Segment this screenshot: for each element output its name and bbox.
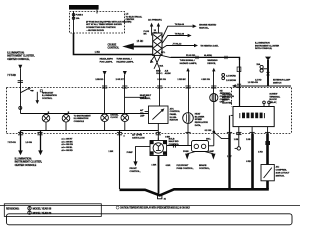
junction dot and diagonal to ground — [205, 130, 230, 146]
svg-text:HEAT: HEAT — [195, 113, 201, 116]
svg-text:HOT AT ALL TIMES WIRING SHOWN: HOT AT ALL TIMES WIRING SHOWN — [86, 23, 122, 26]
svg-text:6 BR: 6 BR — [166, 165, 171, 167]
node label atc left — [140, 109, 145, 118]
ATC control panel R20 — [145, 106, 168, 124]
wire regulator to relay — [167, 144, 192, 148]
svg-text:7 RT-GN: 7 RT-GN — [8, 142, 17, 144]
node label KE — [220, 90, 235, 103]
svg-text:PANEL: PANEL — [170, 113, 178, 116]
node label lamp L5 — [195, 113, 209, 127]
svg-text:SOR CUTOUT: SOR CUTOUT — [276, 172, 290, 174]
svg-text:1.5B: 1.5B — [246, 139, 251, 141]
AC compressor switch S9 — [261, 165, 274, 190]
svg-text:ILLUM-: ILLUM- — [170, 117, 177, 119]
wire tap 1 below lamp bus — [8, 131, 24, 156]
node label cruise control — [108, 44, 120, 50]
svg-text:FUSE CONTROL,: FUSE CONTROL, — [177, 168, 194, 170]
lamp L6 KE jetronic — [210, 94, 218, 132]
svg-text:DEVICE,: DEVICE, — [207, 63, 216, 65]
svg-text:REGULATOR: REGULATOR — [195, 121, 209, 124]
svg-text:LMP: LMP — [140, 116, 145, 118]
svg-text:1.5 BK/GN: 1.5 BK/GN — [226, 80, 237, 82]
connector pair circles — [222, 74, 225, 80]
svg-text:PUMP: PUMP — [127, 152, 134, 154]
svg-text:WARNING: WARNING — [207, 59, 217, 62]
svg-text:10A: 10A — [76, 17, 80, 20]
node label AT control — [132, 134, 145, 140]
svg-text:DATA,: DATA, — [195, 124, 201, 127]
node caution note — [116, 206, 190, 210]
svg-text:8 RD: 8 RD — [246, 161, 251, 163]
wire headlamps drop — [102, 71, 107, 114]
svg-text:DIGITAL: DIGITAL — [110, 113, 119, 116]
svg-text:CONTROL: CONTROL — [169, 144, 180, 146]
svg-text:MALF IND: MALF IND — [169, 140, 179, 143]
svg-text:COMPRES-: COMPRES- — [276, 169, 288, 171]
node label engine heater manual — [199, 23, 216, 29]
node labels wire colors — [226, 76, 237, 82]
node label repeater lights switch — [273, 79, 291, 85]
svg-text:TURN SIGNAL /: TURN SIGNAL / — [180, 59, 196, 62]
svg-text:60A: 60A — [159, 65, 163, 68]
svg-text:CENTER: CENTER — [126, 19, 135, 21]
svg-text:MANUAL,: MANUAL, — [199, 26, 209, 29]
svg-text:A/T CPRM: A/T CPRM — [132, 134, 142, 137]
node label clock — [110, 113, 119, 119]
wire ATC panel to regulator — [156, 124, 171, 141]
node label front control — [130, 168, 141, 173]
svg-text:x2 = GN BK: x2 = GN BK — [61, 141, 73, 143]
svg-text:x5 = GN RD: x5 = GN RD — [61, 150, 73, 152]
svg-text:CENTER CONSOLE: CENTER CONSOLE — [15, 164, 37, 167]
svg-text:TERMINAL: TERMINAL — [269, 95, 280, 98]
svg-text:ILLUMINATION: ILLUMINATION — [255, 42, 270, 45]
svg-text:CONTROL: CONTROL — [42, 98, 53, 100]
svg-text:7 FT-RD: 7 FT-RD — [7, 74, 16, 77]
relay K1 — [192, 139, 214, 152]
svg-text:0.5 GN: 0.5 GN — [205, 130, 212, 132]
wire lamp feed drop — [177, 59, 197, 113]
blower regulator Q1 — [150, 138, 167, 156]
wire tap 2 below lamp bus — [25, 131, 42, 156]
node label turn signal — [116, 58, 134, 81]
wire arrow 2 — [162, 32, 192, 43]
svg-text:TURN SIGNAL /: TURN SIGNAL / — [116, 58, 132, 61]
svg-text:SW+: SW+ — [206, 139, 211, 141]
circuit breaker circles — [255, 63, 267, 81]
wire to up arrow 1 — [150, 23, 153, 36]
svg-text:BLOCK: BLOCK — [269, 99, 277, 101]
svg-text:FUSE: FUSE — [183, 151, 189, 153]
wire 1.5 RD-GN cross — [232, 82, 291, 87]
wire alarm feed — [171, 54, 240, 60]
svg-text:1 RD: 1 RD — [258, 152, 263, 154]
wire relay fuse arrow left — [183, 151, 196, 159]
revisions box — [4, 204, 101, 217]
node label rotary light switch feed — [255, 42, 280, 51]
lamp L5 — [183, 113, 194, 146]
svg-text:1 RD BK: 1 RD BK — [177, 79, 186, 81]
svg-text:GATE ILLUM: GATE ILLUM — [132, 136, 145, 139]
wire ECL main drop — [157, 69, 166, 106]
wire arrow 3 — [162, 42, 198, 48]
svg-text:HEADLAMPS: HEADLAMPS — [100, 58, 114, 61]
svg-text:INSTRUMENT CLUSTER: INSTRUMENT CLUSTER — [255, 45, 280, 47]
svg-text:HOT IN RUN OR START: HOT IN RUN OR START — [71, 6, 97, 10]
horizontal rule — [0, 205, 300, 207]
svg-text:BRAKE: BRAKE — [199, 164, 207, 167]
svg-text:2 GR RT: 2 GR RT — [116, 79, 125, 81]
svg-text:1 BR: 1 BR — [151, 164, 156, 166]
svg-text:HAZARD LAMPS,: HAZARD LAMPS, — [180, 62, 198, 65]
svg-text:FRONT: FRONT — [130, 168, 138, 170]
svg-text:RHEOSTAT: RHEOSTAT — [42, 91, 54, 94]
bulb E1 — [42, 112, 50, 130]
node label instrument illumination — [74, 115, 92, 123]
node label wire color key — [61, 139, 73, 152]
connector C1 ticks — [18, 81, 23, 83]
node: to electrical center label — [126, 14, 143, 22]
wire illumination drop with arrow — [7, 65, 22, 93]
svg-text:A/C PRIMARY,: A/C PRIMARY, — [148, 19, 162, 22]
svg-text:EXTERIOR LAMP: EXTERIOR LAMP — [273, 79, 291, 82]
svg-text:MENT: MENT — [222, 100, 229, 102]
wire pump branch with arrow — [127, 147, 150, 167]
wire X crossing below block ECL — [150, 52, 171, 69]
svg-text:A.B: A.B — [165, 69, 169, 72]
svg-text:TN RA-04: TN RA-04 — [175, 23, 185, 26]
svg-text:FUSE 8: FUSE 8 — [76, 14, 84, 16]
svg-text:ALEM: ALEM — [165, 72, 171, 75]
svg-text:REVISIONS:: REVISIONS: — [6, 208, 20, 211]
svg-text:1.5 GN: 1.5 GN — [25, 142, 32, 144]
wire stub to seat belt — [125, 94, 152, 100]
node 1 connector circle — [19, 106, 22, 109]
svg-text:BK: BK — [144, 33, 148, 35]
svg-text:SWITCH,: SWITCH, — [276, 175, 285, 177]
node label illumination feed — [7, 51, 35, 60]
svg-text:ATC: ATC — [170, 107, 175, 110]
node label 1 BR / 6 BR — [151, 164, 170, 166]
svg-text:FOG LAMPS,: FOG LAMPS, — [100, 60, 113, 63]
node label AC compressor — [276, 165, 290, 177]
node label front fuse control — [177, 165, 194, 170]
svg-text:—SHOWN IN RUN: —SHOWN IN RUN — [86, 30, 104, 32]
ground bus G100 — [120, 189, 269, 200]
node label bulb malfunction — [169, 138, 180, 146]
svg-text:ILLUMINATION: ILLUMINATION — [74, 117, 89, 120]
bulb E3 — [101, 114, 109, 131]
svg-text:TO ELECTRICAL: TO ELECTRICAL — [126, 15, 143, 18]
svg-text:SEAT BELT: SEAT BELT — [140, 94, 152, 97]
svg-text:F1/2 FRONT: F1/2 FRONT — [177, 165, 190, 167]
wire 1 BR from fuse to junction block — [74, 31, 153, 55]
svg-text:1 BR: 1 BR — [95, 51, 101, 54]
svg-text:ENGINE HEATED: ENGINE HEATED — [199, 23, 216, 26]
wire thick ground 2 — [246, 127, 255, 189]
wire thick ground 3 through AC switch — [258, 127, 270, 165]
svg-text:TO INSTRUMENT: TO INSTRUMENT — [74, 115, 92, 117]
svg-text:MODEL YEAR 89: MODEL YEAR 89 — [33, 212, 52, 215]
wire turn signal drop — [122, 71, 127, 114]
bulb E2 — [62, 112, 70, 130]
svg-text:SWITCH: SWITCH — [273, 82, 282, 84]
svg-text:CLOCK: CLOCK — [110, 117, 118, 119]
svg-text:x1 = GN RT: x1 = GN RT — [61, 139, 73, 141]
node label atc right — [170, 107, 181, 121]
svg-text:CONTROL,: CONTROL, — [130, 171, 141, 173]
node label cluster ground — [222, 94, 232, 104]
wire thick arrow 15 RD cruise control — [122, 40, 153, 50]
fuse box (dashed electrical center) — [70, 12, 125, 34]
svg-text:6 BK GN: 6 BK GN — [201, 79, 210, 81]
fuse box note text — [86, 20, 132, 32]
svg-text:A/C: A/C — [276, 165, 280, 168]
wire thick feed right — [265, 57, 271, 87]
wire ground drop from lamp bus — [108, 131, 125, 190]
node label rheostat — [42, 91, 57, 100]
wire to ground terminal G1 — [227, 127, 241, 159]
svg-text:1.5 BK/RD: 1.5 BK/RD — [226, 76, 236, 78]
svg-text:CAUTION: TEMPERATURE DISPLAY W: CAUTION: TEMPERATURE DISPLAY WITH SPEEDO… — [120, 207, 190, 210]
svg-text:HAZARD LAMPS,: HAZARD LAMPS, — [116, 60, 134, 63]
node label brake control — [199, 164, 210, 170]
svg-text:CONNECTING RUN POSITION: CONNECTING RUN POSITION — [86, 27, 116, 29]
wire ground from control head left — [227, 115, 233, 189]
lamp bus top — [21, 113, 149, 115]
svg-text:SPEED: SPEED — [195, 119, 203, 121]
svg-text:1.5 RD-GN: 1.5 RD-GN — [248, 82, 259, 84]
svg-text:BLOWER: BLOWER — [195, 116, 205, 118]
node label screw terminal — [269, 94, 280, 104]
svg-text:WARNING,: WARNING, — [140, 97, 151, 100]
svg-text:2.5B RD: 2.5B RD — [95, 79, 103, 81]
svg-text:5 AMP: 5 AMP — [208, 150, 215, 153]
lamp bus bottom — [21, 130, 159, 132]
label clumps below junction — [156, 69, 171, 75]
wire rotary switch drop — [237, 57, 241, 107]
bulb E4 — [121, 114, 129, 131]
wire to up arrow 2 — [157, 23, 160, 33]
instrument panel dashed boundary — [7, 88, 292, 134]
node label interior lights — [200, 45, 219, 48]
power label HOT IN RUN OR START — [69, 5, 99, 10]
svg-text:15A: 15A — [256, 63, 260, 66]
svg-text:SCREW: SCREW — [269, 94, 278, 96]
svg-text:1 BR: 1 BR — [108, 151, 113, 153]
wire KE drop — [201, 59, 217, 94]
svg-text:x4 = GN BL: x4 = GN BL — [61, 146, 73, 149]
svg-text:CONTROL: CONTROL — [108, 47, 120, 50]
svg-text:ALARM,: ALARM, — [204, 54, 213, 57]
node label rear primary — [148, 19, 162, 35]
svg-text:BK: BK — [154, 33, 158, 35]
svg-text:9 BK GN: 9 BK GN — [157, 79, 166, 81]
svg-text:INATION: INATION — [170, 119, 179, 122]
screw terminals — [263, 101, 271, 106]
wire regulator ground — [158, 156, 160, 194]
svg-text:1 RT: 1 RT — [227, 156, 232, 158]
svg-text:BULB: BULB — [169, 138, 175, 140]
svg-text:CONSOLE: CONSOLE — [74, 121, 85, 123]
svg-text:JT RA-13: JT RA-13 — [172, 42, 182, 45]
wire relay arrow right — [205, 150, 216, 159]
svg-text:TN RA-08: TN RA-08 — [175, 32, 185, 35]
rheostat switch S1 — [20, 87, 42, 113]
svg-text:MAX: MAX — [156, 69, 161, 72]
fuse F8 — [72, 10, 97, 33]
ATC control head U1 — [233, 107, 274, 127]
svg-text:ROTA CONSOLE,: ROTA CONSOLE, — [255, 47, 273, 50]
svg-text:CONTROL: CONTROL — [170, 111, 181, 113]
wire arrow engine heater — [162, 23, 197, 39]
svg-text:PLUS RD: PLUS RD — [186, 55, 196, 57]
svg-text:15 RD: 15 RD — [137, 40, 144, 43]
svg-text:CONTROL,: CONTROL, — [199, 168, 210, 170]
svg-text:ECL: ECL — [161, 52, 166, 54]
svg-text:CLUSTER: CLUSTER — [222, 102, 232, 104]
node label illumination out — [15, 157, 43, 166]
svg-text:1.5B: 1.5B — [234, 139, 239, 141]
connector block X30 — [153, 33, 162, 55]
svg-text:TN HEMTDC DATL: TN HEMTDC DATL — [200, 45, 219, 48]
svg-text:x3 = GN GN: x3 = GN GN — [61, 144, 73, 146]
node label headlamps — [95, 58, 113, 81]
svg-text:ILLUMINATION: ILLUMINATION — [42, 94, 57, 97]
note box bottom — [7, 214, 293, 225]
svg-text:CENTER CONSOLE,: CENTER CONSOLE, — [7, 58, 30, 61]
svg-text:GROUND: GROUND — [222, 94, 232, 96]
svg-text:INSTRU-: INSTRU- — [222, 97, 231, 99]
svg-text:MODEL YEAR 88: MODEL YEAR 88 — [33, 207, 52, 210]
